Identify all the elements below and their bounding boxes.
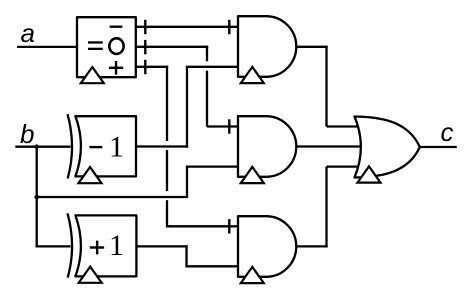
decrementer U2 outer arc bbox=[68, 114, 73, 178]
incrementer U3 box bbox=[75, 215, 136, 276]
wire zero-flag vertical lower bbox=[206, 71, 208, 127]
wire minus-flag from comparator to AND1 top input bbox=[136, 26, 239, 28]
wire plus-flag vertical segment 3 bbox=[166, 200, 168, 226]
wire AND3 output bbox=[296, 245, 327, 247]
wire b vertical drop bbox=[36, 147, 38, 248]
wire plus-flag vertical segment 2 bbox=[166, 150, 168, 191]
svg-text:b: b bbox=[20, 119, 34, 149]
or-gate U7 bbox=[355, 117, 420, 178]
svg-text:1: 1 bbox=[109, 130, 124, 163]
and-gate U4 bbox=[238, 16, 296, 77]
svg-text:1: 1 bbox=[109, 229, 124, 262]
label equals sign in comparator bbox=[88, 42, 103, 48]
tick on minus-flag wire at comparator bbox=[144, 20, 146, 34]
junction node on b branch bbox=[34, 195, 39, 200]
wire b into incrementer input bbox=[37, 245, 71, 247]
and-gate U5 bbox=[238, 116, 296, 177]
junction node on b at input bbox=[34, 144, 39, 149]
incrementer U3 outer arc bbox=[68, 213, 73, 277]
and-gate U6 bbox=[238, 216, 296, 277]
wire AND1 output vertical down bbox=[325, 46, 327, 127]
wire b branch vertical up bbox=[186, 167, 188, 197]
wire plus-flag into AND3 top input bbox=[166, 225, 239, 227]
label plus sign in incrementer bbox=[90, 241, 104, 255]
wire zero-flag vertical upper (hops over node) bbox=[206, 46, 208, 62]
wire decrementer output bbox=[136, 145, 188, 147]
wire zero-flag horizontal from comparator bbox=[136, 46, 208, 48]
label plus output marker in comparator bbox=[109, 61, 123, 75]
tick on zero-flag wire at comparator bbox=[144, 40, 146, 54]
clock triangle on comparator U1 bbox=[81, 67, 104, 83]
wire plus-flag horizontal from comparator bbox=[136, 66, 168, 68]
wire b branch into AND2 bottom input bbox=[186, 165, 239, 167]
clock triangle on incrementer U3 bbox=[79, 267, 102, 283]
tick on plus-flag wire at AND3 bbox=[228, 219, 230, 233]
wire AND3 output vertical up bbox=[325, 167, 327, 248]
clock triangle on decrementer U2 bbox=[79, 167, 102, 183]
wire c output bbox=[418, 146, 457, 148]
label minus sign in decrementer bbox=[89, 146, 102, 148]
tick on minus-flag wire at AND1 bbox=[228, 20, 230, 34]
wire b branch to AND2 bbox=[37, 196, 188, 198]
wire AND3 output into OR bottom input bbox=[327, 165, 361, 167]
tick on zero-flag wire at AND2 bbox=[228, 119, 230, 133]
clock triangle on and-gate U4 bbox=[241, 67, 264, 83]
label minus output marker in comparator bbox=[110, 26, 123, 28]
wire decrementer output into AND1 bottom input bbox=[186, 66, 239, 68]
tick on plus-flag wire at comparator bbox=[144, 60, 146, 74]
clock triangle on and-gate U5 bbox=[241, 167, 264, 183]
wire AND1 output bbox=[296, 46, 327, 48]
comparator U1 box bbox=[77, 17, 136, 77]
clock triangle on or-gate U7 bbox=[358, 166, 381, 182]
wire plus-flag vertical segment 1 bbox=[166, 66, 168, 141]
wire AND2 output into OR middle input bbox=[296, 145, 363, 147]
wire incrementer output into AND3 bottom input bbox=[185, 265, 239, 267]
label O in comparator bbox=[109, 38, 123, 54]
wire zero-flag into AND2 top input bbox=[207, 125, 239, 127]
wire incrementer output bbox=[136, 245, 187, 247]
wire decrementer output vertical up bbox=[186, 67, 188, 148]
decrementer U2 box bbox=[75, 116, 136, 176]
wire b input bbox=[15, 146, 70, 148]
clock triangle on and-gate U6 bbox=[241, 267, 264, 283]
svg-text:c: c bbox=[441, 117, 454, 147]
wire incrementer output vertical down bbox=[185, 245, 187, 266]
wire a input bbox=[17, 46, 78, 48]
wire AND1 output into OR top input bbox=[327, 125, 361, 127]
svg-text:a: a bbox=[21, 18, 35, 48]
